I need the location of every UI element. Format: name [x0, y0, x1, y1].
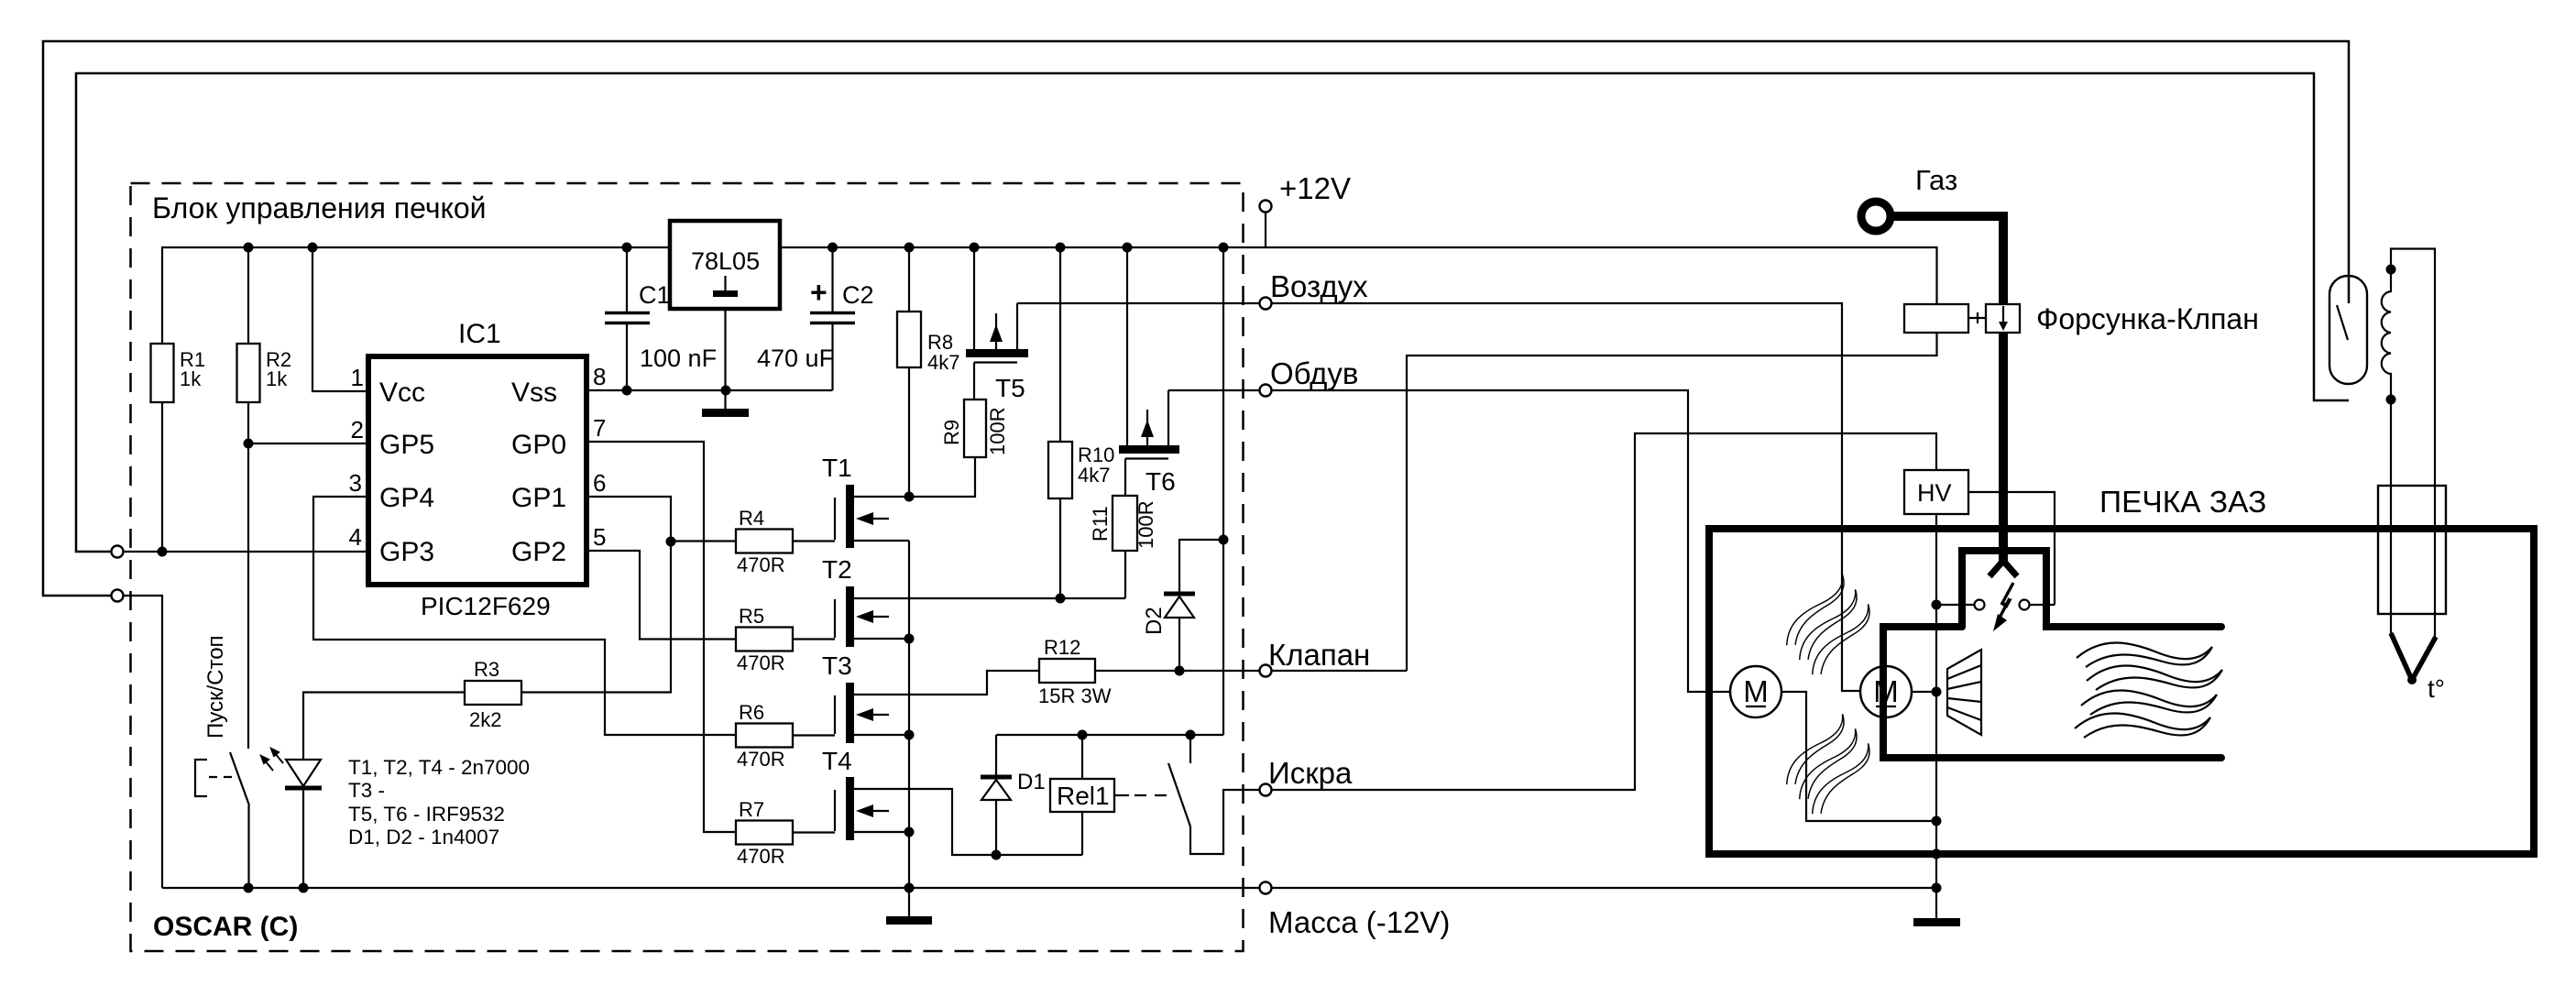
svg-text:Обдув: Обдув — [1270, 356, 1358, 390]
gas pipe down — [1999, 333, 2008, 565]
wire GP1 to node — [586, 497, 671, 542]
svg-text:+: + — [810, 276, 828, 309]
svg-text:R4: R4 — [739, 507, 764, 530]
svg-text:R7: R7 — [739, 798, 764, 821]
svg-text:Форсунка-Клпан: Форсунка-Клпан — [2036, 302, 2259, 335]
wire solenoid return to Клапан — [1407, 333, 1937, 671]
ground symbol 78L05 — [724, 390, 726, 410]
resistor R6 — [736, 724, 793, 748]
svg-text:4k7: 4k7 — [1078, 464, 1110, 487]
svg-text:+12V: +12V — [1279, 171, 1351, 205]
svg-text:1: 1 — [351, 364, 364, 391]
wire relay top row — [996, 734, 1223, 736]
node D2 +12V — [1219, 535, 1229, 545]
node main ground column — [904, 883, 915, 893]
svg-text:IC1: IC1 — [458, 319, 501, 349]
svg-text:T3: T3 — [822, 651, 852, 680]
resistor R4 — [736, 530, 793, 553]
wire +12V bus left segment — [162, 247, 670, 344]
diode D2 — [1179, 540, 1223, 593]
valve body — [1986, 304, 2020, 333]
svg-text:M: M — [1743, 674, 1769, 708]
svg-text:T1: T1 — [822, 454, 852, 482]
gas nozzle — [1990, 561, 2017, 576]
node T2 drain R10 — [1056, 594, 1066, 604]
motor M2 — [1860, 666, 1912, 717]
svg-text:T5: T5 — [995, 374, 1025, 402]
burner outline — [1883, 551, 2221, 758]
capacitor C1 — [626, 247, 628, 312]
svg-text:100R: 100R — [1135, 500, 1157, 549]
candle body — [2329, 276, 2367, 384]
wire R6 to T3 gate — [793, 734, 835, 736]
node switch ground — [244, 883, 254, 893]
wire T3 drain to R12 — [854, 671, 1039, 695]
svg-text:1k: 1k — [266, 367, 288, 390]
svg-text:470R: 470R — [737, 845, 785, 868]
wire 78L05 gnd pin — [724, 309, 726, 390]
svg-text:6: 6 — [593, 469, 606, 497]
diode D1 — [995, 735, 997, 777]
svg-text:GP2: GP2 — [511, 537, 566, 567]
node bus T5 — [970, 243, 980, 253]
wire switch bottom — [247, 805, 249, 888]
terminal Воздух — [1260, 298, 1272, 310]
wire outer sense loop to candle body — [76, 73, 2349, 552]
wire ground loop entry — [123, 596, 162, 888]
resistor R12 — [1039, 659, 1095, 683]
wire +12V terminal stub — [1265, 212, 1266, 247]
terminal Клапан — [1260, 665, 1272, 677]
resistor R10 — [1059, 247, 1061, 442]
wire T6 drain to Обдув — [1168, 390, 1730, 692]
terminal Искра — [1260, 784, 1272, 796]
wire R4 to T1 gate — [793, 540, 835, 542]
svg-text:GP0: GP0 — [511, 430, 566, 460]
svg-text:4k7: 4k7 — [927, 351, 959, 374]
svg-text:1k: 1k — [180, 367, 202, 390]
terminal Обдув — [1260, 385, 1272, 397]
wire GP2 to R5 — [586, 551, 736, 640]
node T3 source — [904, 730, 915, 740]
svg-text:PIC12F629: PIC12F629 — [421, 592, 551, 620]
node box bottom ground — [1932, 849, 1942, 859]
wire GP3 row — [123, 551, 368, 553]
wire GP0 to R7 — [586, 442, 736, 832]
node bus R8 — [904, 243, 915, 253]
node GP1 R4 R3 — [666, 537, 676, 547]
svg-text:Газ: Газ — [1915, 164, 1957, 196]
wire GP4 to R6 — [313, 497, 736, 735]
svg-text:470 uF: 470 uF — [757, 345, 834, 372]
node bus relay branch — [1219, 243, 1229, 253]
node Масса ground — [1932, 883, 1942, 893]
wire R8 to T1 drain — [908, 367, 910, 497]
wire outer ground loop to candle — [43, 41, 2349, 596]
resistor R9 — [964, 399, 986, 457]
svg-text:R12: R12 — [1044, 636, 1080, 659]
svg-text:R5: R5 — [739, 605, 764, 628]
wire R2 top — [247, 247, 249, 344]
node bus C1 — [622, 243, 632, 253]
wire Искра to HV — [1266, 433, 1936, 790]
svg-text:8: 8 — [593, 363, 606, 390]
wire R5 to T2 gate — [793, 638, 835, 640]
node Rel1 top — [1078, 730, 1088, 740]
node T4 source — [904, 827, 915, 837]
thermo probe V — [2391, 633, 2436, 680]
svg-text:100 nF: 100 nF — [640, 345, 717, 372]
svg-text:5: 5 — [593, 523, 606, 551]
svg-text:Масса (-12V): Масса (-12V) — [1268, 905, 1450, 939]
node T2 source — [904, 634, 915, 644]
svg-text:C2: C2 — [842, 281, 874, 309]
box ПЕЧКА ЗАЗ — [1709, 529, 2534, 854]
svg-text:D2: D2 — [1142, 607, 1167, 635]
wire Rel1 actuation dashed — [1114, 794, 1129, 796]
svg-text:GP5: GP5 — [379, 430, 434, 460]
node bus T6 — [1123, 243, 1133, 253]
svg-text:Rel1: Rel1 — [1057, 782, 1110, 810]
node Vss 78L05 — [721, 386, 731, 396]
svg-text:ПЕЧКА ЗАЗ: ПЕЧКА ЗАЗ — [2099, 486, 2266, 520]
svg-text:R6: R6 — [739, 701, 764, 724]
wire R11 bottom — [1124, 551, 1126, 598]
svg-text:Воздух: Воздух — [1270, 269, 1368, 303]
LED emission arrows — [261, 749, 283, 771]
resistor R3 — [465, 681, 521, 705]
glow coil — [2386, 265, 2396, 275]
node Vss C1 — [622, 386, 632, 396]
svg-text:7: 7 — [593, 414, 606, 442]
node spark left — [1932, 600, 1942, 610]
thermowell — [2378, 486, 2446, 614]
resistor R2 — [237, 344, 260, 402]
resistor R5 — [736, 628, 793, 651]
motor M1 — [1730, 666, 1781, 717]
wire R3 to LED — [303, 691, 465, 694]
wire R2 bottom to switch — [247, 402, 249, 749]
svg-text:Блок управления печкой: Блок управления печкой — [152, 192, 487, 224]
svg-text:GP3: GP3 — [379, 537, 434, 567]
switch Пуск/Стоп blade — [230, 752, 249, 805]
svg-text:R11: R11 — [1089, 506, 1112, 542]
terminal Масса — [1260, 882, 1272, 894]
wire R1 bottom — [161, 402, 163, 552]
wire ground column heater — [1935, 514, 1937, 888]
relay Rel1 — [1081, 735, 1083, 779]
gas inlet Газ — [1861, 202, 1891, 231]
wire Vss row — [586, 389, 833, 391]
node GP5 R2 — [244, 439, 254, 449]
wire GP1 node to R3 — [521, 542, 671, 693]
ground symbol heater — [1935, 888, 1937, 919]
wire T5 drain to Воздух — [1017, 303, 1860, 691]
node bus R2 — [244, 243, 254, 253]
node GP3 R1 — [158, 547, 168, 557]
node T1 drain — [904, 492, 915, 502]
LED indicator — [302, 693, 304, 760]
control unit dashed border — [131, 183, 1244, 951]
switch actuator link dashes — [209, 776, 235, 778]
wire R9 bottom to T1 drain — [909, 457, 975, 497]
svg-text:t°: t° — [2428, 674, 2445, 703]
svg-text:T6: T6 — [1145, 467, 1176, 496]
wire R12 to Клапан row — [1095, 670, 1407, 672]
svg-text:OSCAR (C): OSCAR (C) — [153, 912, 298, 942]
spark gap electrodes — [1936, 604, 1974, 606]
svg-text:Vcc: Vcc — [379, 378, 425, 408]
svg-text:GP1: GP1 — [511, 483, 566, 513]
resistor R8 — [908, 247, 910, 312]
wire GP1 node to R4 — [671, 540, 736, 542]
svg-text:D1: D1 — [1017, 770, 1046, 794]
svg-text:2: 2 — [351, 416, 364, 443]
svg-text:T5, T6 - IRF9532: T5, T6 - IRF9532 — [348, 803, 505, 826]
wire M2 return — [1912, 691, 1936, 693]
coil bypass — [2391, 249, 2435, 638]
block HV — [1904, 470, 1968, 514]
node bus C2 — [828, 243, 838, 253]
terminal circle GP3 — [112, 546, 124, 558]
svg-text:78L05: 78L05 — [691, 247, 760, 275]
svg-text:C1: C1 — [639, 281, 671, 309]
spark bolt — [1999, 583, 2013, 619]
svg-text:T1, T2, T4 - 2n7000: T1, T2, T4 - 2n7000 — [348, 756, 530, 779]
svg-text:2k2: 2k2 — [469, 708, 501, 731]
svg-text:R9: R9 — [940, 420, 963, 445]
op IC1 PIC12F629 box — [368, 356, 586, 585]
svg-text:4: 4 — [349, 523, 362, 551]
wire +12V bus right segment — [780, 247, 1937, 304]
svg-text:R3: R3 — [474, 658, 499, 681]
svg-text:470R: 470R — [737, 748, 785, 771]
svg-text:HV: HV — [1917, 479, 1952, 507]
node LED ground — [299, 883, 309, 893]
terminal circle ground loop — [112, 590, 124, 602]
svg-text:470R: 470R — [737, 553, 785, 576]
capacitor C2 — [831, 247, 833, 312]
wire source column — [908, 541, 910, 888]
wire ground bus bottom — [162, 887, 1936, 889]
regulator 78L05 — [670, 221, 780, 309]
node D1 anode — [992, 850, 1002, 860]
node bus R10 — [1056, 243, 1066, 253]
wire T4 drain to relay — [854, 789, 1082, 855]
terminal +12V — [1260, 201, 1272, 213]
fan cone — [1947, 650, 1981, 735]
svg-text:GP4: GP4 — [379, 483, 434, 513]
svg-text:Пуск/Стоп: Пуск/Стоп — [203, 635, 228, 739]
solenoid Форсунка — [1904, 304, 1968, 333]
wire HV to spark — [1968, 492, 2055, 605]
candle filament — [2337, 305, 2348, 340]
node Клапан D2 — [1175, 666, 1185, 676]
svg-text:470R: 470R — [737, 651, 785, 674]
wire R10 to T2 drain row — [1059, 498, 1061, 598]
svg-text:Искра: Искра — [1268, 756, 1353, 790]
svg-text:T2: T2 — [822, 555, 852, 584]
node contact top — [1186, 730, 1196, 740]
svg-text:T4: T4 — [822, 747, 852, 775]
svg-text:15R 3W: 15R 3W — [1038, 684, 1112, 707]
node bus Vcc — [308, 243, 318, 253]
ground symbol control unit — [908, 888, 910, 917]
resistor R7 — [736, 821, 793, 845]
node M1 ground — [1932, 816, 1942, 826]
node M2 ground — [1932, 687, 1942, 697]
svg-text:D1, D2 - 1n4007: D1, D2 - 1n4007 — [348, 826, 499, 848]
wire R7 to T4 gate — [793, 831, 835, 833]
resistor R1 — [151, 344, 174, 402]
wire +12V branch vertical — [1222, 247, 1224, 735]
svg-text:Клапан: Клапан — [1268, 638, 1370, 672]
switch actuator bracket — [195, 760, 207, 796]
wire GP5 row — [248, 443, 368, 444]
svg-text:T3 -: T3 - — [348, 779, 385, 802]
relay contact — [1189, 735, 1191, 763]
svg-text:Vss: Vss — [511, 378, 557, 408]
resistor R11 — [1113, 496, 1137, 551]
svg-text:3: 3 — [349, 469, 362, 497]
svg-text:100R: 100R — [986, 407, 1009, 455]
wire M1 return — [1781, 692, 1936, 821]
